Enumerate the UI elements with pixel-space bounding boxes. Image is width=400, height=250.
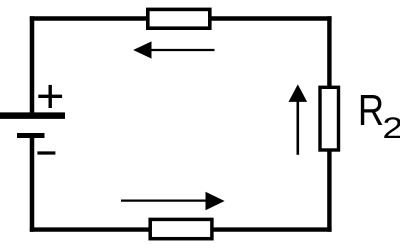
resistor R1 (top, box) <box>148 9 210 28</box>
battery negative plate (short) <box>17 133 45 138</box>
battery - polarity label <box>37 151 55 154</box>
wire top-right horizontal segment <box>211 16 332 20</box>
current arrow (bottom, pointing right) <box>121 192 225 210</box>
battery + polarity label <box>38 85 62 108</box>
wire right vertical upper segment <box>327 16 331 87</box>
svg-text:2: 2 <box>382 112 400 145</box>
wire left vertical lower segment <box>30 137 35 232</box>
wire top-left horizontal segment <box>30 16 147 20</box>
current arrow (right, pointing up) <box>289 84 308 154</box>
resistor R3 (bottom, box) <box>150 219 212 238</box>
wire left vertical upper segment <box>30 16 35 113</box>
wire right vertical lower segment <box>327 151 331 232</box>
current arrow (top, pointing left) <box>133 41 214 58</box>
wire bottom-left horizontal segment <box>30 227 150 231</box>
wire bottom-right horizontal segment <box>213 227 332 231</box>
svg-text:R: R <box>358 87 384 135</box>
battery positive plate (long) <box>0 112 65 119</box>
resistor R2 (right, box) <box>320 87 339 150</box>
label R2 <box>358 87 400 145</box>
